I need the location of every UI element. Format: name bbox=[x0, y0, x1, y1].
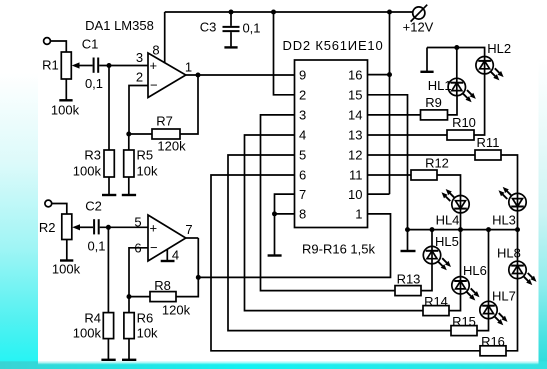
svg-text:10k: 10k bbox=[137, 325, 158, 340]
resistor R10 bbox=[447, 115, 476, 140]
wire HL1/HL2 common top bbox=[427, 48, 485, 57]
node rail/HL5 bbox=[430, 227, 435, 232]
svg-text:100k: 100k bbox=[52, 262, 81, 277]
LED HL1 bbox=[428, 78, 476, 102]
resistor R7 bbox=[152, 114, 186, 154]
ground under pins 7/8 bbox=[268, 254, 282, 256]
LED HL6 bbox=[452, 263, 487, 301]
svg-text:3: 3 bbox=[136, 50, 143, 65]
pin 9 label bbox=[299, 68, 306, 83]
resistor R2 (potentiometer) bbox=[39, 214, 81, 277]
svg-text:R1: R1 bbox=[42, 58, 59, 73]
node rail to +12V drop bbox=[387, 10, 392, 15]
svg-text:4: 4 bbox=[299, 128, 306, 143]
LED HL7 bbox=[480, 289, 516, 326]
pin 8 label bbox=[299, 207, 306, 222]
wire DD2 pin 10 stub bbox=[368, 193, 390, 195]
ground under R4 bbox=[101, 359, 115, 361]
wire pin 8 to +12V rail bbox=[164, 12, 166, 63]
pin 3 label bbox=[136, 50, 143, 65]
svg-text:8: 8 bbox=[299, 207, 306, 222]
svg-text:R12: R12 bbox=[425, 156, 449, 171]
node C2/R4 junction bbox=[106, 225, 111, 230]
svg-text:R13: R13 bbox=[397, 272, 421, 287]
LED HL2 bbox=[476, 41, 511, 80]
wire R14 to HL6 bottom bbox=[449, 294, 461, 311]
svg-text:C2: C2 bbox=[85, 199, 102, 214]
wire R15 to HL7 bottom bbox=[477, 319, 489, 331]
wire R13 to HL5 bottom bbox=[421, 264, 432, 291]
wire pin 2 to R5/R7 junction bbox=[129, 86, 148, 135]
svg-text:5: 5 bbox=[299, 148, 306, 163]
svg-text:10k: 10k bbox=[137, 164, 158, 179]
wire R11 to HL3 bbox=[501, 155, 518, 193]
node rail to DD2 pin 2 bbox=[271, 10, 276, 15]
svg-text:1: 1 bbox=[355, 207, 362, 222]
ground under R2 bbox=[60, 259, 73, 261]
svg-text:C3: C3 bbox=[200, 20, 217, 35]
node C3 on rail bbox=[229, 10, 234, 15]
wire R1 bottom to ground bbox=[65, 79, 67, 100]
wire +12V supply rail bbox=[165, 11, 414, 13]
wire R4 bottom to ground bbox=[107, 339, 109, 359]
wire rail to HL7 top bbox=[488, 230, 490, 302]
svg-text:HL5: HL5 bbox=[435, 234, 459, 249]
wire pin 6 to R6/R8 junction bbox=[129, 248, 148, 297]
wire common to ground bbox=[426, 48, 428, 72]
wire rail to HL5 top bbox=[431, 230, 433, 247]
pin 4 label bbox=[172, 248, 179, 263]
capacitor C2 bbox=[85, 199, 105, 254]
svg-text:R14: R14 bbox=[424, 294, 448, 309]
svg-text:HL3: HL3 bbox=[492, 213, 516, 228]
svg-text:R16: R16 bbox=[481, 334, 505, 349]
node rail/ground bbox=[405, 227, 410, 232]
input terminal J2 bbox=[45, 200, 52, 207]
wire +12V drop to pin 16 and pin 10 bbox=[389, 12, 391, 194]
svg-text:100k: 100k bbox=[73, 325, 102, 340]
wire pin 6 bus to R16 bbox=[211, 175, 480, 351]
pin 5 label bbox=[134, 215, 141, 230]
svg-text:120k: 120k bbox=[162, 303, 191, 318]
node HL1 top junction bbox=[454, 45, 459, 50]
svg-text:0,1: 0,1 bbox=[85, 76, 103, 91]
wire C2 to op-amp pin 5 bbox=[100, 226, 148, 228]
op-amp U1B DA1.2 bbox=[148, 215, 186, 261]
label R9-R16 1,5k bbox=[302, 242, 375, 257]
ground under R1 bbox=[59, 99, 72, 101]
pin 15 label bbox=[348, 88, 362, 103]
svg-text:R9: R9 bbox=[425, 95, 442, 110]
ground under R6 bbox=[122, 359, 136, 361]
pin 13 label bbox=[348, 128, 362, 143]
wire C1 to op-amp pin 3 bbox=[99, 65, 148, 67]
wire R3 bottom to ground bbox=[108, 177, 110, 194]
svg-text:13: 13 bbox=[348, 128, 362, 143]
svg-text:2: 2 bbox=[299, 88, 306, 103]
wire R16 to HL8 bottom bbox=[506, 279, 518, 351]
resistor R6 bbox=[124, 310, 158, 340]
svg-text:+12V: +12V bbox=[403, 20, 434, 35]
wire junction down to R4 bbox=[107, 227, 109, 312]
svg-text:120k: 120k bbox=[157, 139, 186, 154]
svg-text:HL6: HL6 bbox=[463, 263, 487, 278]
wire pins 7/8 to ground bbox=[274, 214, 276, 255]
pin 6 label bbox=[299, 168, 306, 183]
pin 7 label bbox=[299, 187, 306, 202]
wire HL4 cathode through rail to HL6 top bbox=[460, 213, 462, 277]
pin 7 label bbox=[185, 222, 192, 237]
svg-text:R4: R4 bbox=[84, 310, 101, 325]
wire R9 to HL1 bbox=[448, 96, 458, 115]
ground under pin 15 drop bbox=[401, 250, 416, 252]
pin 10 label bbox=[348, 187, 362, 202]
IC DD2 K561IE10 box bbox=[283, 38, 384, 228]
svg-text:R6: R6 bbox=[137, 310, 154, 325]
svg-text:HL1: HL1 bbox=[428, 78, 452, 93]
resistor R16 bbox=[480, 334, 506, 356]
input terminal J1 bbox=[44, 38, 51, 45]
resistor R8 bbox=[150, 278, 191, 318]
svg-text:HL7: HL7 bbox=[492, 289, 516, 304]
capacitor C3 bbox=[200, 12, 261, 46]
ground under C3 bbox=[224, 46, 237, 48]
wire junction to R8 left bbox=[129, 296, 150, 298]
ground under pin 4 bbox=[161, 260, 175, 262]
resistor R11 bbox=[475, 135, 501, 160]
ground under common bbox=[420, 71, 433, 73]
svg-text:7: 7 bbox=[185, 222, 192, 237]
svg-text:1: 1 bbox=[185, 60, 192, 75]
wire R7 right to op-amp output bbox=[180, 75, 198, 134]
pin 1 label bbox=[355, 207, 362, 222]
wire pin 13 stub bbox=[368, 134, 448, 136]
svg-text:2: 2 bbox=[136, 70, 143, 85]
node op-amp2 output bus junction bbox=[196, 275, 201, 280]
wire op-amp2 output to bus bbox=[186, 237, 199, 239]
resistor R3 bbox=[73, 148, 115, 179]
ground under R3 bbox=[102, 194, 116, 196]
node pin2/R5/R7 junction bbox=[126, 132, 131, 137]
LED HL5 bbox=[423, 234, 459, 270]
wire op-amp1 output to DD2 pin 9 bbox=[186, 74, 295, 76]
node C1/R3 junction bbox=[107, 63, 112, 68]
svg-text:100k: 100k bbox=[73, 164, 102, 179]
pin 16 label bbox=[348, 68, 362, 83]
wire R12 to HL4 bbox=[437, 175, 461, 196]
svg-text:11: 11 bbox=[349, 168, 363, 183]
R2 wiper arrow bbox=[72, 224, 93, 230]
node rail/HL7 bbox=[486, 227, 491, 232]
wire pin 7 to pin 8 bbox=[275, 194, 295, 214]
pin 12 label bbox=[348, 148, 362, 163]
svg-text:DD2 К561ИЕ10: DD2 К561ИЕ10 bbox=[283, 38, 384, 53]
svg-text:R15: R15 bbox=[452, 314, 476, 329]
wire pin 12 stub bbox=[368, 154, 476, 156]
wire junction to R7 left bbox=[129, 133, 152, 135]
svg-text:HL4: HL4 bbox=[436, 213, 460, 228]
LED HL3 bbox=[492, 187, 526, 228]
svg-text:16: 16 bbox=[348, 68, 362, 83]
label DA1 LM358 bbox=[85, 18, 154, 33]
ground under R5 bbox=[122, 194, 136, 196]
wire rail to DD2 pin 2 bbox=[274, 12, 295, 95]
svg-text:9: 9 bbox=[299, 68, 306, 83]
svg-text:0,1: 0,1 bbox=[87, 239, 105, 254]
svg-text:14: 14 bbox=[348, 108, 362, 123]
resistor R4 bbox=[73, 310, 114, 340]
wire HL3 cathode through rail to HL8 top bbox=[517, 211, 519, 261]
wire R8 right to op-amp2 output bbox=[176, 238, 198, 297]
svg-text:R9-R16 1,5k: R9-R16 1,5k bbox=[302, 242, 375, 257]
R1 wiper arrow bbox=[72, 62, 93, 68]
node pin 16 junction bbox=[387, 72, 392, 77]
svg-text:R5: R5 bbox=[137, 148, 154, 163]
svg-text:HL8: HL8 bbox=[497, 246, 521, 261]
wire pin 3 bus to R13 bbox=[261, 115, 396, 291]
resistor R13 bbox=[395, 272, 421, 296]
LED HL4 bbox=[436, 189, 470, 228]
wire cathode rail bbox=[408, 229, 518, 231]
wire HL1 top lead bbox=[456, 48, 458, 79]
svg-text:C1: C1 bbox=[82, 37, 99, 52]
wire op-amp2 output bus to DD2 pin 1 bbox=[198, 214, 390, 278]
svg-text:R7: R7 bbox=[156, 114, 173, 129]
svg-text:R3: R3 bbox=[84, 148, 101, 163]
svg-text:5: 5 bbox=[134, 215, 141, 230]
svg-text:R8: R8 bbox=[154, 278, 171, 293]
svg-text:12: 12 bbox=[348, 148, 362, 163]
svg-text:+: + bbox=[150, 221, 158, 236]
wire R5 bottom to ground bbox=[128, 177, 130, 194]
capacitor C1 bbox=[82, 37, 103, 92]
wire R5 top bbox=[128, 134, 130, 150]
wire pin 14 stub bbox=[368, 114, 421, 116]
wire input to R1 top bbox=[51, 41, 67, 52]
resistor R14 bbox=[423, 294, 449, 316]
resistor R5 bbox=[124, 148, 158, 179]
pin 4 ground stub bbox=[166, 249, 168, 260]
svg-text:0,1: 0,1 bbox=[242, 21, 260, 36]
pin 8 label bbox=[152, 43, 159, 58]
pin 2 label bbox=[136, 70, 143, 85]
svg-text:DA1 LM358: DA1 LM358 bbox=[85, 18, 154, 33]
wire DD2 pin 16 stub bbox=[368, 74, 390, 76]
svg-text:100k: 100k bbox=[51, 103, 80, 118]
LED HL8 bbox=[497, 246, 537, 285]
node op-amp1 output bbox=[196, 73, 201, 78]
svg-text:10: 10 bbox=[348, 187, 362, 202]
background right cyan gradient band bbox=[539, 0, 547, 364]
wire junction down to R3 bbox=[108, 66, 110, 151]
svg-text:3: 3 bbox=[299, 108, 306, 123]
pin 2 label bbox=[299, 88, 306, 103]
+12V terminal bbox=[403, 5, 434, 35]
resistor R12 bbox=[411, 156, 449, 181]
pin 6 label bbox=[134, 241, 141, 256]
svg-text:8: 8 bbox=[152, 43, 159, 58]
pin 4 label bbox=[299, 128, 306, 143]
svg-text:7: 7 bbox=[299, 187, 306, 202]
op-amp U1A DA1.1 bbox=[148, 53, 186, 98]
resistor R9 bbox=[421, 95, 448, 120]
svg-text:−: − bbox=[150, 240, 158, 255]
svg-text:R11: R11 bbox=[477, 135, 500, 150]
svg-text:15: 15 bbox=[348, 88, 362, 103]
pin 1 label bbox=[185, 60, 192, 75]
pin 5 label bbox=[299, 148, 306, 163]
wire input2 to R2 top bbox=[52, 204, 67, 215]
wire R10 to HL2 bbox=[474, 74, 485, 135]
resistor R15 bbox=[451, 314, 477, 336]
svg-text:HL2: HL2 bbox=[487, 41, 511, 56]
wire pin 15 to ground drop bbox=[368, 95, 408, 250]
svg-text:R10: R10 bbox=[452, 115, 476, 130]
wire R2 bottom to ground bbox=[66, 240, 68, 260]
node rail/HL4-HL6 bbox=[458, 227, 463, 232]
resistor R1 (potentiometer) bbox=[42, 52, 80, 118]
wire R6 top bbox=[128, 297, 130, 313]
svg-text:−: − bbox=[150, 78, 158, 93]
svg-text:6: 6 bbox=[299, 168, 306, 183]
node rail/HL3-HL8 bbox=[515, 227, 520, 232]
svg-text:R2: R2 bbox=[39, 220, 56, 235]
node pin 7/8 junction bbox=[272, 211, 277, 216]
pin 14 label bbox=[348, 108, 362, 123]
node pin6/R6/R8 junction bbox=[127, 294, 132, 299]
wire pin 4 bus to R14 bbox=[245, 135, 424, 311]
pin 3 label bbox=[299, 108, 306, 123]
background bottom cyan bar bbox=[0, 361, 547, 369]
wire R6 bottom to ground bbox=[128, 339, 130, 359]
wire pin 5 bus to R15 bbox=[228, 155, 451, 331]
background left cyan gradient band bbox=[0, 0, 38, 364]
wire pin 11 stub bbox=[368, 174, 412, 176]
pin 11 label bbox=[349, 168, 363, 183]
svg-text:+: + bbox=[150, 58, 158, 73]
